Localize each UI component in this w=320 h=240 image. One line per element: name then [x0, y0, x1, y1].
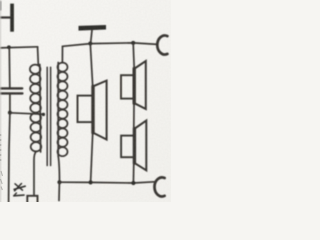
node bottom-left tee dot — [57, 180, 61, 184]
left edge faint marks — [1, 134, 3, 190]
node A junction dot — [7, 45, 11, 49]
speaker LS3 frame — [121, 136, 134, 158]
speaker LS3 cone — [135, 121, 147, 171]
transformer T1 secondary winding — [58, 63, 68, 157]
speaker LS1 diaphragm — [91, 86, 94, 133]
wire capacitor lower lead — [9, 95, 11, 113]
terminal J2 bottom — [154, 177, 164, 196]
capacitor plate fragment top-left — [0, 2, 14, 32]
wire speaker LS3 bottom lead — [132, 163, 134, 183]
wire secondary bottom lead — [58, 157, 59, 183]
ground symbol — [79, 25, 107, 43]
label 1k — [14, 184, 25, 196]
wire primary bottom lead — [34, 152, 36, 196]
node LS3 bottom dot — [131, 181, 135, 185]
wire top-left run — [0, 47, 38, 48]
wire capacitor upper lead — [8, 47, 11, 87]
speaker LS3 diaphragm — [133, 129, 136, 164]
wire left-edge drop — [9, 113, 10, 202]
node top-right tee dot — [131, 41, 135, 45]
wire top-right run — [63, 43, 158, 46]
speaker LS1 cone — [93, 81, 106, 140]
speaker LS1 frame — [78, 96, 93, 123]
node ground tee dot — [88, 42, 92, 46]
speaker LS2 cone — [135, 61, 146, 109]
resistor R1 — [27, 196, 37, 204]
paper grain — [0, 0, 171, 202]
wire bottom run — [60, 182, 155, 183]
wire speaker LS1 bottom lead — [91, 133, 93, 183]
node LS1 bottom dot — [89, 180, 93, 184]
wire primary top lead — [37, 47, 40, 65]
wire bottom-left drop — [58, 182, 60, 200]
terminal J1 top — [157, 36, 167, 55]
capacitor C1 — [0, 88, 22, 93]
wire secondary top lead — [61, 46, 63, 62]
wire speaker LS2 top lead — [133, 43, 134, 69]
scan background — [0, 0, 171, 202]
node tap dot — [42, 113, 45, 116]
wire speaker LS1 top lead — [90, 44, 92, 87]
left edge shade — [0, 0, 1, 202]
transformer T1 primary winding — [30, 65, 41, 153]
wire between LS2 and LS3 — [133, 103, 135, 128]
node B junction dot — [8, 111, 12, 115]
speaker LS2 diaphragm — [132, 69, 135, 104]
transformer T1 core — [47, 67, 50, 165]
wire tap to winding — [10, 113, 42, 114]
speaker LS2 frame — [121, 75, 134, 98]
